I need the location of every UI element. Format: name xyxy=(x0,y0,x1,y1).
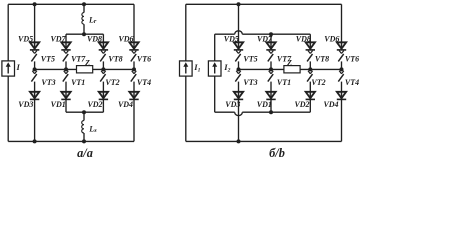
svg-text:VD2: VD2 xyxy=(294,100,309,109)
wire VD7 leg top xyxy=(270,34,272,42)
svg-text:VD6: VD6 xyxy=(118,34,133,43)
wire I2 branch upper xyxy=(214,34,216,61)
wire VD8 leg top xyxy=(309,34,311,42)
diode VD5 xyxy=(30,42,39,50)
svg-text:VT5: VT5 xyxy=(41,54,55,63)
transistor VT1 xyxy=(268,71,274,92)
wire circuit-b top rail xyxy=(186,3,342,5)
load Z circuit a xyxy=(77,66,93,73)
svg-text:VT3: VT3 xyxy=(243,78,257,87)
wire circuit-b middle rail right segment xyxy=(300,68,341,70)
node middle rail leg4 b xyxy=(340,67,344,71)
wire VD6 leg top xyxy=(341,4,343,42)
wire circuit-a top rail xyxy=(8,3,134,5)
node Lr / inner top rail xyxy=(82,32,86,36)
diode VD2 xyxy=(306,92,315,100)
wire circuit-a bottom rail xyxy=(8,140,134,142)
svg-text:VT7: VT7 xyxy=(71,54,86,63)
diode VD8 xyxy=(99,42,108,50)
svg-text:VT4: VT4 xyxy=(345,78,359,87)
svg-text:VT3: VT3 xyxy=(41,78,55,87)
wire VD2 leg bottom xyxy=(309,99,311,112)
current source I2 xyxy=(208,61,221,76)
node middle rail leg1 b xyxy=(237,67,241,71)
wire circuit-b left edge lower xyxy=(185,76,187,141)
svg-text:VD8: VD8 xyxy=(87,34,102,43)
transistor VT7 xyxy=(268,51,274,70)
svg-text:VD5: VD5 xyxy=(18,34,33,43)
wire inner bottom rail b left xyxy=(215,111,235,113)
node bottom rail / leg1 b xyxy=(237,139,241,143)
svg-text:VT2: VT2 xyxy=(105,78,119,87)
wire inner bottom rail b right xyxy=(242,111,310,113)
wire VD3 leg bottom xyxy=(34,99,36,141)
wire VD4 leg bottom xyxy=(133,99,135,141)
current source I1 xyxy=(180,61,193,76)
diode VD5 xyxy=(234,42,243,50)
transistor VT4 xyxy=(338,71,344,92)
wire VD3 leg bottom xyxy=(238,99,240,141)
diode VD8 xyxy=(306,42,315,50)
node top rail / Lr xyxy=(82,2,86,6)
inductor Lr xyxy=(82,13,84,25)
transistor VT2 xyxy=(307,71,313,92)
wire inner top rail a xyxy=(66,33,103,35)
svg-text:VD1: VD1 xyxy=(51,100,66,109)
transistor VT3 xyxy=(31,71,37,92)
diode VD1 xyxy=(266,92,275,100)
wire VD1 leg bottom xyxy=(270,99,272,112)
wire Lr bottom stub xyxy=(83,24,85,34)
node middle rail leg A xyxy=(33,67,37,71)
transistor VT5 xyxy=(235,51,241,70)
wire circuit-b left edge upper xyxy=(185,4,187,61)
crossing hop leg1 over inner bottom rail xyxy=(235,112,243,115)
wire circuit-a left edge lower xyxy=(7,76,9,141)
transistor VT1 xyxy=(63,71,69,92)
wire I2 branch lower xyxy=(214,76,216,112)
diode VD4 xyxy=(337,92,346,100)
transistor VT3 xyxy=(235,71,241,92)
svg-text:VT1: VT1 xyxy=(71,78,85,87)
wire circuit-a left edge upper xyxy=(7,4,9,61)
node middle rail leg2 b xyxy=(269,67,273,71)
node bottom rail / Ls xyxy=(82,139,86,143)
svg-text:VD2: VD2 xyxy=(87,100,102,109)
transistor VT6 xyxy=(131,51,137,70)
diode VD7 xyxy=(266,42,275,50)
diode VD7 xyxy=(61,42,70,50)
inductor Ls xyxy=(82,121,84,134)
wire VD5 leg top xyxy=(34,4,36,42)
node middle rail leg C xyxy=(101,67,105,71)
svg-text:VT2: VT2 xyxy=(311,78,325,87)
svg-text:VT4: VT4 xyxy=(137,78,151,87)
node inner bottom rail / leg2 b xyxy=(269,110,273,114)
wire circuit-a middle rail right segment xyxy=(93,68,134,70)
svg-text:VD4: VD4 xyxy=(118,100,133,109)
node middle rail leg3 b xyxy=(308,67,312,71)
transistor VT6 xyxy=(338,51,344,70)
transistor VT8 xyxy=(100,51,106,70)
wire VD2 leg bottom xyxy=(102,99,104,112)
diode VD3 xyxy=(30,92,39,100)
transistor VT8 xyxy=(307,51,313,70)
wire Lr top stub xyxy=(83,4,85,12)
wire circuit-b bottom rail xyxy=(186,140,342,142)
transistor VT7 xyxy=(63,51,69,70)
node top rail / leg1 b xyxy=(237,2,241,6)
diode VD1 xyxy=(61,92,70,100)
svg-text:VT5: VT5 xyxy=(243,54,257,63)
diode VD6 xyxy=(129,42,138,50)
svg-text:VD7: VD7 xyxy=(257,34,273,43)
transistor VT4 xyxy=(131,71,137,92)
node bottom rail / leg VD3 xyxy=(33,139,37,143)
diode VD3 xyxy=(234,92,243,100)
node inner top rail / leg2 b xyxy=(269,32,273,36)
wire inner top rail b left xyxy=(215,33,235,35)
svg-text:VD7: VD7 xyxy=(50,34,66,43)
wire VD1 leg bottom xyxy=(65,99,67,112)
node middle rail leg B xyxy=(64,67,68,71)
svg-text:VT7: VT7 xyxy=(277,54,292,63)
svg-text:VD8: VD8 xyxy=(296,34,311,43)
load Z circuit b xyxy=(284,66,300,73)
svg-text:VD1: VD1 xyxy=(257,100,272,109)
node middle rail leg D xyxy=(132,67,136,71)
crossing hop leg1 over inner top rail xyxy=(235,31,243,34)
wire circuit-b middle rail left segment xyxy=(239,68,284,70)
svg-text:VT8: VT8 xyxy=(108,54,122,63)
diode VD6 xyxy=(337,42,346,50)
wire VD7 leg top xyxy=(65,34,67,42)
wire circuit-a middle rail left segment xyxy=(35,68,77,70)
transistor VT2 xyxy=(100,71,106,92)
svg-text:VD6: VD6 xyxy=(324,34,339,43)
wire VD4 leg bottom xyxy=(341,99,343,141)
wire VD8 leg top xyxy=(102,34,104,42)
svg-text:VD3: VD3 xyxy=(18,100,33,109)
svg-text:б/b: б/b xyxy=(269,146,285,160)
node Ls / inner bottom rail xyxy=(82,110,86,114)
current source I xyxy=(2,61,15,76)
wire VD5 leg top xyxy=(238,4,240,42)
svg-text:а/a: а/a xyxy=(77,146,93,160)
svg-text:VD5: VD5 xyxy=(224,34,239,43)
diode VD4 xyxy=(129,92,138,100)
transistor VT5 xyxy=(31,51,37,70)
wire Ls top stub xyxy=(83,112,85,120)
svg-text:I: I xyxy=(16,62,21,72)
svg-text:VT1: VT1 xyxy=(277,78,291,87)
svg-text:VT6: VT6 xyxy=(345,54,359,63)
svg-text:VD4: VD4 xyxy=(323,100,338,109)
svg-text:VT6: VT6 xyxy=(137,54,151,63)
wire Ls bottom stub xyxy=(83,133,85,141)
svg-text:VT8: VT8 xyxy=(315,54,329,63)
wire inner bottom rail a xyxy=(66,111,103,113)
wire inner top rail b right xyxy=(242,33,310,35)
wire VD6 leg top xyxy=(133,4,135,42)
diode VD2 xyxy=(99,92,108,100)
node top rail / leg VD5 xyxy=(33,2,37,6)
